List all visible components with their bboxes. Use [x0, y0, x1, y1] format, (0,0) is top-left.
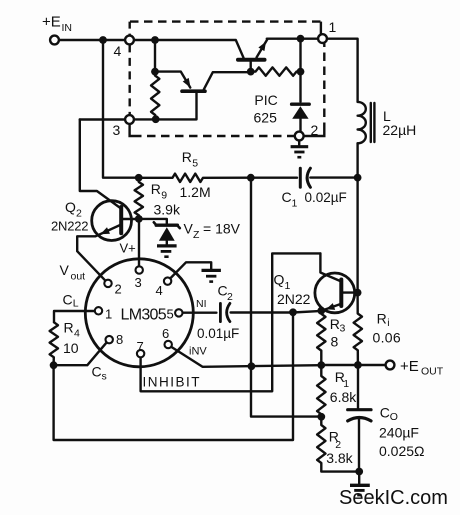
svg-text:3.9k: 3.9k — [154, 202, 181, 218]
svg-text:O: O — [390, 411, 398, 423]
svg-text:C: C — [282, 189, 292, 205]
svg-text:PIC: PIC — [254, 92, 277, 108]
svg-text:C: C — [380, 405, 390, 421]
svg-text:2N22: 2N22 — [277, 291, 311, 307]
svg-text:2: 2 — [115, 282, 122, 297]
svg-text:+E: +E — [42, 14, 61, 31]
svg-text:22µH: 22µH — [383, 122, 417, 138]
svg-text:6: 6 — [162, 326, 169, 341]
svg-text:Z: Z — [193, 229, 200, 241]
svg-text:7: 7 — [137, 339, 144, 354]
svg-text:5: 5 — [167, 307, 174, 322]
svg-text:3: 3 — [113, 122, 121, 138]
svg-text:V: V — [60, 262, 70, 278]
svg-text:4: 4 — [156, 283, 163, 298]
svg-text:0.06: 0.06 — [373, 330, 401, 346]
svg-text:+E: +E — [400, 358, 419, 375]
svg-text:R: R — [330, 316, 340, 332]
svg-text:1: 1 — [105, 307, 112, 322]
svg-text:out: out — [71, 271, 86, 283]
svg-text:240µF: 240µF — [379, 425, 419, 441]
svg-text:9: 9 — [161, 190, 167, 202]
svg-text:Q: Q — [65, 199, 76, 215]
svg-text:1: 1 — [292, 198, 298, 210]
svg-text:i: i — [387, 317, 389, 329]
svg-text:OUT: OUT — [421, 366, 444, 378]
svg-text:R: R — [64, 319, 74, 335]
svg-text:2: 2 — [311, 122, 319, 138]
svg-text:1: 1 — [329, 19, 337, 35]
svg-text:2N222: 2N222 — [51, 219, 88, 234]
svg-text:Q: Q — [274, 272, 285, 288]
svg-text:V+: V+ — [120, 241, 136, 256]
svg-text:3.8k: 3.8k — [326, 450, 353, 466]
svg-text:V: V — [184, 221, 194, 237]
svg-text:R: R — [377, 311, 387, 327]
svg-text:4: 4 — [74, 327, 80, 339]
svg-text:10: 10 — [63, 340, 79, 356]
svg-text:5: 5 — [192, 157, 198, 169]
svg-text:R: R — [182, 149, 192, 165]
svg-text:IN: IN — [62, 22, 73, 34]
svg-text:L: L — [73, 298, 79, 310]
svg-text:INHIBIT: INHIBIT — [143, 375, 202, 390]
svg-text:0.01µF: 0.01µF — [197, 326, 239, 341]
svg-text:3: 3 — [340, 322, 346, 334]
svg-text:iNV: iNV — [189, 345, 207, 357]
svg-text:2: 2 — [227, 291, 233, 303]
svg-text:3: 3 — [135, 275, 142, 290]
svg-text:C: C — [63, 292, 73, 308]
svg-text:s: s — [102, 371, 107, 383]
svg-text:0.02µF: 0.02µF — [305, 190, 347, 205]
svg-text:NI: NI — [196, 298, 207, 310]
svg-text:= 18V: = 18V — [203, 221, 241, 237]
svg-text:1.2M: 1.2M — [180, 184, 211, 200]
svg-text:8: 8 — [331, 334, 339, 350]
svg-text:625: 625 — [254, 110, 278, 126]
svg-text:C: C — [92, 364, 102, 380]
svg-text:SeekIC.com: SeekIC.com — [339, 487, 448, 509]
svg-text:LM305: LM305 — [121, 307, 167, 324]
svg-text:6.8k: 6.8k — [330, 389, 357, 405]
svg-text:0.025Ω: 0.025Ω — [379, 443, 425, 459]
svg-text:R: R — [151, 181, 161, 197]
svg-text:8: 8 — [116, 332, 123, 347]
svg-text:4: 4 — [114, 43, 122, 59]
